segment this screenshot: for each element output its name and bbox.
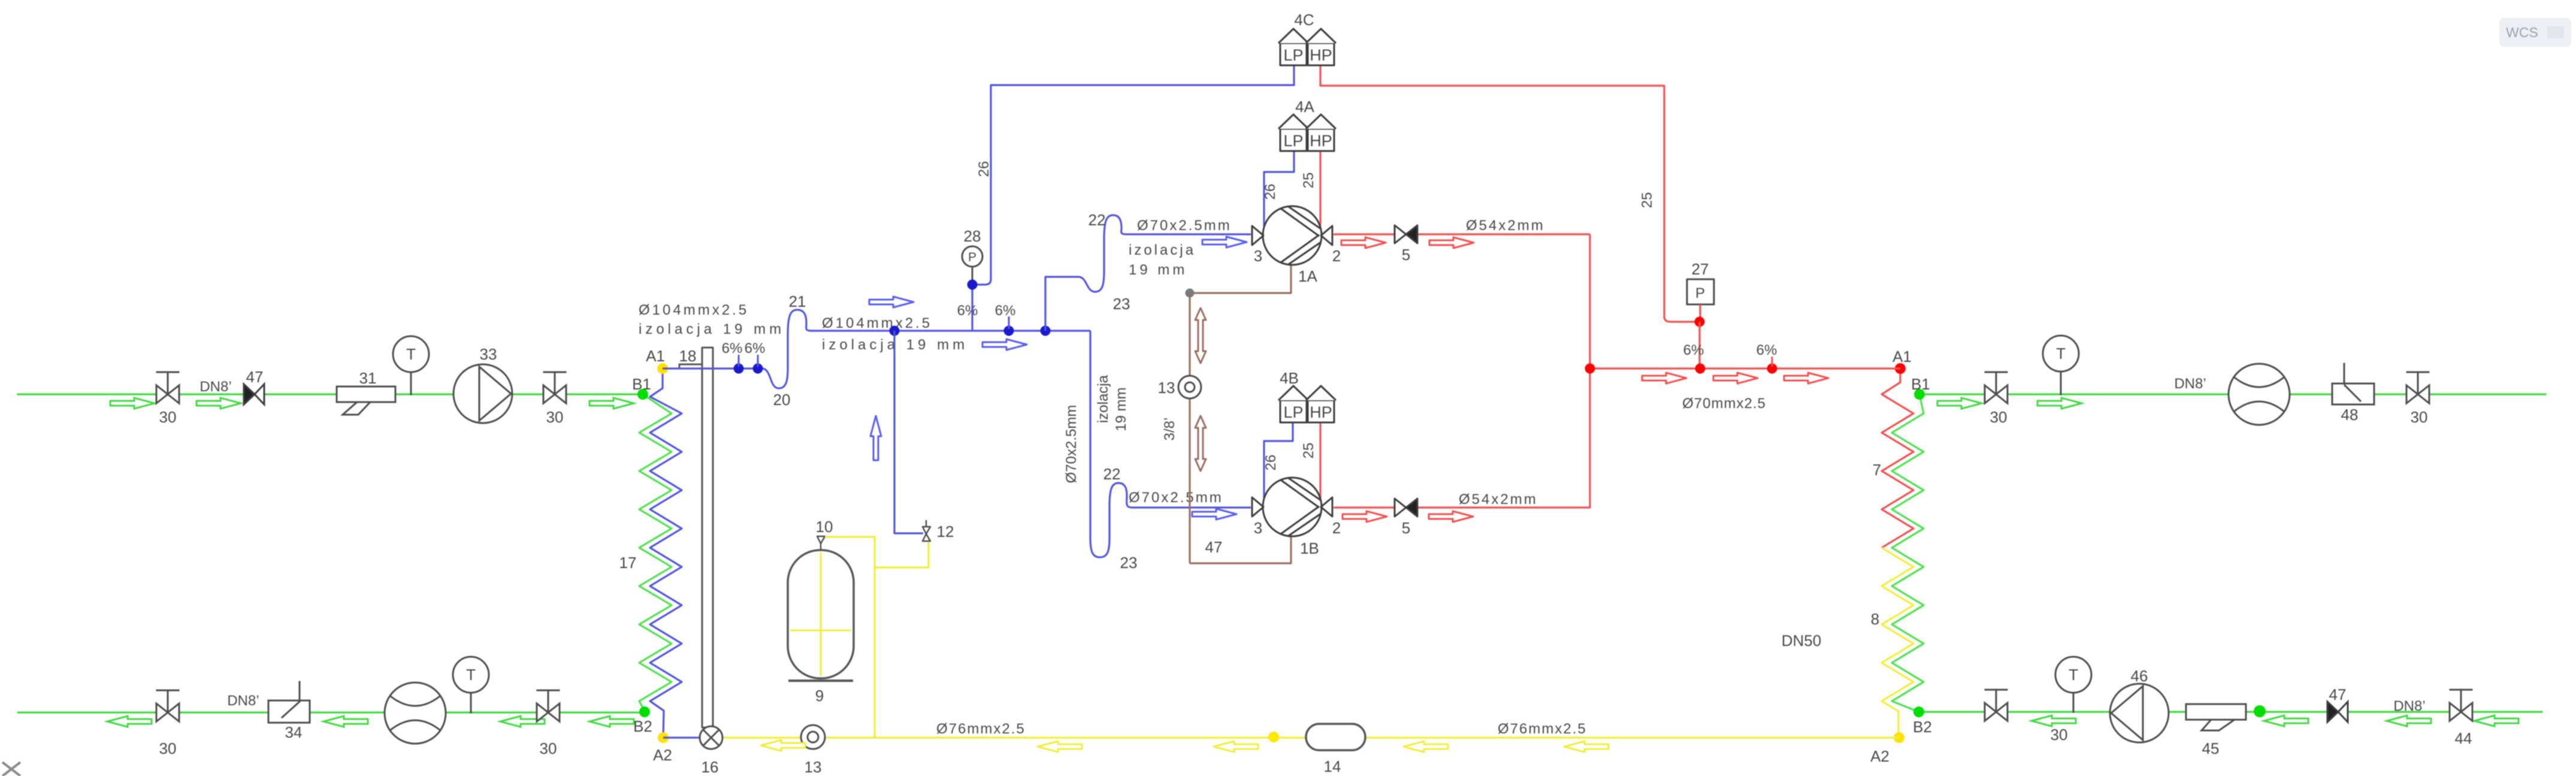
svg-text:P: P [1695,285,1705,301]
strainer 31 [337,387,395,415]
flow meter [385,683,446,744]
node A2 left [658,732,669,743]
compressor 1B [1252,478,1332,536]
svg-text:izolacja: izolacja [1129,242,1196,258]
svg-text:22: 22 [1089,211,1106,229]
svg-text:B1: B1 [632,375,651,393]
double flow arrow [1195,416,1206,471]
HX 17 blue coil [650,369,682,738]
svg-text:13: 13 [805,758,822,776]
svg-text:16: 16 [702,758,719,776]
svg-text:6%: 6% [957,303,978,319]
discharge 1B [1334,506,1590,508]
drop to safety valve 12 [894,331,923,533]
main suction header [810,330,1090,331]
pump 33 [453,364,512,423]
thermometer T [410,372,412,394]
svg-text:DN8’: DN8’ [227,693,259,709]
svg-text:1B: 1B [1300,539,1319,557]
svg-text:3/8’: 3/8’ [1162,418,1178,441]
valve 30 [1985,372,2007,403]
node B1 right [1914,389,1925,400]
line 26 to compressor 1B [1264,423,1293,498]
node dots on A1 branch [734,364,744,374]
svg-text:izolacja 19 mm: izolacja 19 mm [639,321,785,337]
pressure switch 4A [1278,114,1336,151]
svg-text:22: 22 [1103,465,1121,483]
check valve 47 [244,384,264,404]
svg-text:6%: 6% [745,340,766,357]
svg-text:4C: 4C [1294,11,1314,29]
svg-text:47: 47 [1205,538,1223,556]
pipe supply left top [18,393,643,395]
svg-text:izolacja: izolacja [1095,375,1111,423]
flow arrow left [2031,715,2076,726]
svg-text:30: 30 [1990,408,2007,426]
svg-text:Ø70x2.5mm: Ø70x2.5mm [1137,218,1232,234]
svg-text:DN8’: DN8’ [2393,698,2425,714]
svg-text:30: 30 [159,739,177,757]
flow arrow left [1404,741,1448,752]
svg-text:30: 30 [546,408,564,426]
line 26 to compressor 1A [1264,152,1294,227]
svg-text:30: 30 [159,408,177,426]
valve 44 [2450,690,2472,721]
air vent 18 [679,364,702,368]
thermometer T [2073,693,2075,712]
svg-text:8: 8 [1871,610,1879,628]
svg-text:45: 45 [2202,739,2220,757]
riser join [1589,234,1591,508]
flow arrow [1192,509,1236,520]
svg-text:Ø54x2mm: Ø54x2mm [1466,218,1545,234]
svg-text:A1: A1 [646,347,665,365]
svg-text:6%: 6% [722,340,743,357]
pipe supply right top [1919,393,2545,395]
svg-text:4A: 4A [1295,98,1314,116]
flow arrow left [107,716,152,727]
HX 7/8 yellow coil [1882,548,1913,738]
slope marks 6% [1008,316,1010,329]
flow arrow [1429,511,1473,522]
valve 30 [537,690,560,721]
separator column [702,348,713,727]
svg-text:19 mm: 19 mm [1129,262,1187,278]
svg-text:47: 47 [2329,686,2347,703]
oil line to 1B [1190,536,1291,563]
thermometer T [470,692,472,712]
svg-text:31: 31 [359,369,377,387]
oil line from 1A [1192,265,1291,293]
flow arrow [869,297,914,307]
svg-text:14: 14 [1324,757,1341,775]
svg-text:20: 20 [773,391,791,409]
svg-text:B1: B1 [1911,375,1930,393]
valve 30 [1985,690,2007,721]
svg-text:18: 18 [679,347,697,365]
oil equalisation riser [1189,293,1190,563]
svg-text:26: 26 [1263,455,1279,471]
flow arrow left [1564,741,1609,752]
pipe return right bottom [1919,711,2542,712]
svg-text:23: 23 [1120,554,1138,572]
flow arrow left [2387,715,2431,726]
balancing valve 34 [268,682,310,723]
slope marks 6% [1771,357,1773,367]
HX 17 green coil [639,394,672,712]
svg-text:23: 23 [1113,295,1130,313]
svg-text:DN50: DN50 [1782,632,1821,650]
svg-text:25: 25 [1639,192,1655,209]
svg-text:21: 21 [789,292,806,310]
node A1 right [1895,363,1906,374]
flow arrow [1343,511,1387,522]
svg-text:30: 30 [2051,726,2068,744]
node A1 left [657,363,668,374]
slope marks 6% [738,355,740,367]
svg-text:19 mm: 19 mm [1113,387,1129,431]
svg-text:Ø104mmx2.5: Ø104mmx2.5 [822,315,932,331]
junction dot [2254,705,2266,717]
pipe return left bottom [18,711,645,713]
node dots on header [890,326,900,336]
svg-text:33: 33 [480,345,497,363]
svg-text:5: 5 [1402,519,1410,537]
line 25 to compressor 1A [1319,152,1321,226]
svg-text:26: 26 [976,161,992,177]
safety valve 12 [923,520,930,541]
flow arrow [196,398,241,409]
svg-text:17: 17 [619,554,637,572]
junction dot [1268,732,1279,742]
trap to compressor 1B [1090,331,1251,557]
node B2 left [639,706,650,717]
line 26 from switch 4C [972,66,1294,331]
svg-text:6%: 6% [1683,342,1704,358]
svg-text:2: 2 [1332,519,1341,537]
flow arrow [1341,237,1386,248]
flow meter [2229,364,2290,425]
pressure switch 4B [1278,386,1336,422]
expansion vessel 9 [788,550,854,678]
svg-text:46: 46 [2131,667,2148,685]
service valve 5 [1395,499,1417,517]
relief discharge pipe [825,537,875,738]
flow arrow up [870,416,881,460]
flow arrow [982,339,1027,350]
svg-text:3: 3 [1254,247,1262,265]
pump 46 [2110,684,2169,742]
svg-text:Ø54x2mm: Ø54x2mm [1459,491,1538,508]
sight glass 13 [801,725,825,749]
svg-text:10: 10 [816,518,833,536]
svg-text:B2: B2 [1913,718,1932,736]
service valve 5 [1395,225,1417,243]
flow arrow left [761,740,805,751]
condenser header [1590,367,1900,369]
svg-text:B2: B2 [633,717,652,735]
svg-text:48: 48 [2341,406,2359,424]
svg-text:9: 9 [815,687,824,705]
flow arrow left [323,716,368,727]
discharge 1A [1334,233,1590,235]
wire A1 to riser [663,367,762,369]
svg-text:34: 34 [285,723,303,741]
balancing valve 48 [2332,364,2374,404]
flow arrow left [2474,715,2518,726]
main expansion line [722,736,1899,738]
flow arrow [1202,237,1247,247]
node B2 right [1913,706,1924,717]
svg-text:A1: A1 [1892,348,1912,366]
svg-text:Ø76mmx2.5: Ø76mmx2.5 [936,721,1026,737]
branch to valve 12 [875,542,929,567]
flow arrow [2037,398,2082,409]
thermometer T [2060,372,2062,394]
trap to compressor 1A [1045,215,1251,331]
svg-text:26: 26 [1262,184,1278,200]
svg-text:30: 30 [2411,408,2428,426]
svg-text:30: 30 [540,739,557,757]
svg-text:44: 44 [2455,729,2472,747]
svg-text:DN8’: DN8’ [2174,376,2206,392]
svg-text:DN8’: DN8’ [199,379,231,395]
flow arrow [589,398,634,409]
valve 30 [156,690,179,721]
flow arrow left [1038,741,1082,752]
muffler 14 [1306,724,1365,750]
flow arrow [1642,373,1686,384]
svg-text:1A: 1A [1298,267,1317,285]
flow arrow left [589,716,634,727]
HX 7/8 red coil [1882,369,1913,548]
valve 30 [156,372,179,403]
valve 30 [543,372,566,403]
svg-text:2: 2 [1332,247,1341,265]
node [1186,289,1195,298]
svg-text:27: 27 [1692,260,1709,278]
svg-text:25: 25 [1301,443,1317,459]
svg-text:5: 5 [1402,246,1410,264]
svg-text:25: 25 [1301,173,1317,189]
double flow arrow [1195,308,1206,363]
drain valve 16 [700,726,722,749]
valve 30 [2406,372,2429,403]
blue stub A2 to drain 16 [663,736,700,738]
node A2 right [1894,732,1904,743]
svg-text:Ø76mmx2.5: Ø76mmx2.5 [1498,721,1587,737]
svg-text:7: 7 [1873,461,1881,479]
flow arrow left [500,716,545,727]
svg-text:P: P [968,250,976,264]
flow arrow left [1214,741,1258,752]
svg-text:Ø70mmx2.5: Ø70mmx2.5 [1682,395,1766,412]
svg-text:A2: A2 [653,746,672,764]
flow arrow [1429,237,1474,248]
svg-text:Ø70x2.5mm: Ø70x2.5mm [1129,490,1223,506]
WCS chip [2499,18,2571,47]
svg-text:Ø70x2.5mm: Ø70x2.5mm [1063,405,1080,484]
pressure switch 4C [1278,29,1336,65]
svg-text:12: 12 [937,523,954,541]
compressor 1A [1252,206,1332,265]
svg-text:WCS: WCS [2506,25,2538,40]
flow arrow [1784,373,1828,384]
strainer 45 [2186,704,2246,730]
HX 7/8 green coil [1892,394,1924,712]
svg-text:47: 47 [246,368,264,386]
node B1 left [637,389,648,400]
svg-text:28: 28 [964,227,981,245]
svg-text:A2: A2 [1870,747,1889,765]
svg-text:6%: 6% [995,303,1016,319]
line 25 from switch 4C [1320,66,1700,322]
expansion loop 20/21 [762,310,812,388]
svg-text:4B: 4B [1280,369,1299,387]
check valve 47 [2327,702,2348,722]
flow arrow [1937,398,1982,409]
svg-text:13: 13 [1158,379,1175,397]
flow arrow [110,398,155,409]
line 25 to compressor 1B [1319,423,1321,498]
svg-text:6%: 6% [1756,342,1777,358]
flow arrow [1713,373,1758,384]
svg-text:3: 3 [1254,519,1262,537]
corner axis mark [2,762,20,776]
flow arrow left [2264,715,2308,726]
sight glass 13 [1178,376,1201,398]
svg-text:Ø104mmx2.5: Ø104mmx2.5 [639,302,749,318]
